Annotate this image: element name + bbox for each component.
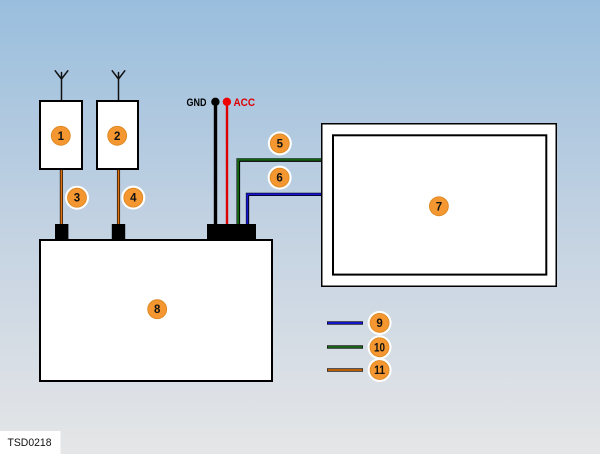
svg-text:1: 1 [58, 131, 65, 143]
svg-text:2: 2 [114, 131, 120, 143]
svg-text:9: 9 [376, 318, 382, 330]
svg-text:10: 10 [374, 342, 385, 354]
svg-text:3: 3 [74, 193, 80, 205]
svg-text:GND: GND [187, 97, 207, 109]
svg-text:4: 4 [130, 193, 137, 205]
svg-text:ACC: ACC [234, 97, 256, 109]
svg-text:7: 7 [436, 201, 442, 213]
svg-text:5: 5 [277, 138, 284, 150]
svg-text:11: 11 [374, 365, 386, 377]
svg-text:8: 8 [154, 304, 161, 316]
svg-text:6: 6 [276, 173, 282, 185]
svg-text:TSD0218: TSD0218 [8, 437, 52, 449]
